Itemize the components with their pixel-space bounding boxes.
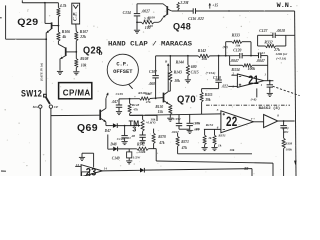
svg-text:B: B <box>164 60 168 64</box>
svg-text:.022: .022 <box>222 84 228 88</box>
svg-text:D48: D48 <box>109 142 116 146</box>
svg-text:88: 88 <box>244 166 248 171</box>
wire bus to C120 <box>210 55 240 57</box>
wire Q69 collector arrow to B <box>105 98 107 108</box>
svg-text:MA: MA <box>32 105 39 109</box>
op-amp U23 <box>81 153 83 157</box>
svg-text:1/2W: 1/2W <box>133 156 141 160</box>
resistor R334 100k feedback <box>229 56 231 66</box>
capacitor C134 .0027 <box>136 4 138 13</box>
resistor 2.2k <box>137 21 141 23</box>
wire bus corner down <box>272 163 274 176</box>
svg-text:10k: 10k <box>235 43 240 47</box>
svg-text:1k: 1k <box>218 144 222 148</box>
node trigger junction <box>44 2 46 4</box>
capacitor C153 .018 <box>189 114 191 123</box>
capacitor output to ground <box>269 81 271 85</box>
svg-text:4.7k: 4.7k <box>59 4 67 8</box>
wire Q70 emitter to R150 <box>168 103 170 106</box>
svg-text:CP: CP <box>54 105 59 109</box>
svg-text:Q29: Q29 <box>17 17 38 28</box>
wire left-bottom tick <box>1 170 6 172</box>
svg-text:C149: C149 <box>112 156 120 160</box>
node R143 tap <box>169 55 171 57</box>
resistor R338 100k <box>282 138 285 148</box>
diode D49 output <box>140 168 144 173</box>
svg-text:BA662 (8): BA662 (8) <box>259 106 281 111</box>
svg-text:R347: R347 <box>145 91 152 95</box>
wire callout leader <box>129 84 133 88</box>
wire D48 branch riser <box>107 135 109 150</box>
wire U23 output <box>102 169 140 172</box>
wire corner down to bus <box>155 149 157 161</box>
wire trigger vertical to Q29 collector <box>44 3 46 24</box>
ground C149 <box>126 160 132 162</box>
svg-text:.001: .001 <box>283 130 289 134</box>
svg-text:.068: .068 <box>149 82 155 86</box>
svg-text:5: 5 <box>217 108 219 112</box>
svg-text:10k: 10k <box>195 121 200 125</box>
wire U22 top input <box>130 114 166 117</box>
wire top-left horizontal rail <box>22 2 58 4</box>
svg-text:7: 7 <box>251 117 253 121</box>
transistor Q29 <box>51 22 53 29</box>
resistor R142 10k <box>198 54 209 57</box>
resistor R143 10k <box>169 56 171 71</box>
svg-text:47k: 47k <box>181 146 188 150</box>
svg-text:39k: 39k <box>204 98 211 102</box>
svg-text:680: 680 <box>191 65 197 69</box>
resistor R335 39k <box>200 92 203 102</box>
resistor R106 4k <box>57 32 60 41</box>
resistor R371 47k <box>177 133 179 137</box>
svg-text:R371: R371 <box>181 140 189 144</box>
svg-text:R144: R144 <box>176 61 184 65</box>
svg-text:R351: R351 <box>218 133 226 137</box>
svg-text:4k: 4k <box>61 35 66 39</box>
svg-text:R109: R109 <box>148 16 156 20</box>
svg-text:.0047: .0047 <box>256 59 266 63</box>
svg-text:(-15): (-15) <box>282 126 288 130</box>
capacitor C116 .022 <box>192 8 194 13</box>
capacitor C149 trimmer box <box>128 149 130 152</box>
wire Q29 emitter down to SW12 <box>45 33 47 95</box>
ground R351 <box>211 147 217 149</box>
wire to Q28 collector <box>57 41 59 44</box>
ground TM3 <box>140 140 146 142</box>
diode D47 <box>113 123 117 128</box>
wire Q48 collector to C116 <box>172 10 193 12</box>
svg-text:.0018: .0018 <box>276 29 285 33</box>
wire rail right edge down <box>295 11 296 176</box>
svg-text:C127: C127 <box>259 29 268 33</box>
svg-text:Q48: Q48 <box>173 22 191 33</box>
circle C.P. OFFSET callout <box>107 54 138 85</box>
node Q28 base junction <box>75 51 77 53</box>
ground R150 <box>167 117 173 119</box>
ground C134 <box>134 29 140 31</box>
svg-text:1: 1 <box>261 83 263 87</box>
wire U21 output <box>264 80 274 82</box>
wire bus to C121 <box>242 55 258 57</box>
svg-text:R143: R143 <box>174 70 182 74</box>
svg-text:C152: C152 <box>173 117 181 121</box>
node C140 tap <box>124 125 126 127</box>
wire white-noise rail <box>196 10 295 12</box>
svg-text:R338: R338 <box>285 142 292 146</box>
svg-text:47k: 47k <box>145 100 151 104</box>
svg-text:100: 100 <box>148 24 153 28</box>
resistor R342 150k <box>137 147 149 150</box>
wire R108 to ground <box>75 68 77 72</box>
wire output to corner <box>144 169 252 171</box>
wire +8 stub <box>256 88 258 97</box>
capacitor C139 .047 <box>118 99 120 105</box>
node bypass junctions <box>225 55 227 57</box>
svg-text:22: 22 <box>226 114 238 129</box>
resistor R150 15k <box>169 105 172 114</box>
svg-text:10k: 10k <box>201 57 207 61</box>
svg-text:+15: +15 <box>212 4 218 8</box>
resistor R148 47k <box>129 99 131 104</box>
wire U23 feedback <box>82 152 94 154</box>
svg-text:2.2M: 2.2M <box>179 1 189 5</box>
wire buffer output <box>278 120 295 122</box>
svg-text:23: 23 <box>86 167 97 176</box>
wire U22 output <box>253 121 263 123</box>
svg-text:b: b <box>99 49 103 57</box>
svg-text:22k: 22k <box>79 35 86 39</box>
svg-text:C115: C115 <box>191 70 199 74</box>
ground Q28 emitter <box>57 70 63 72</box>
resistor 2.2M to rail <box>177 2 180 9</box>
svg-text:C120: C120 <box>233 48 241 52</box>
op-amp U22 <box>221 111 254 133</box>
svg-text:C107: C107 <box>149 70 157 74</box>
wire MA down <box>39 108 41 176</box>
svg-text:C134: C134 <box>123 11 131 15</box>
svg-text:R335: R335 <box>205 93 213 97</box>
ground C139 <box>116 111 122 113</box>
ground output cap <box>267 92 273 94</box>
wire 22k to Q28 base node <box>75 41 77 59</box>
transistor Q48 <box>166 6 168 15</box>
svg-text:C.P.: C.P. <box>73 12 79 21</box>
svg-text:150k: 150k <box>138 150 145 154</box>
wire rail segment <box>57 17 59 33</box>
svg-text:C.P.: C.P. <box>116 62 129 68</box>
wire Q70 collector <box>167 72 169 91</box>
wire Q28 emitter down <box>59 59 61 71</box>
wire bottom bus <box>156 161 273 163</box>
wire R148 to TM3 row <box>129 114 131 116</box>
resistor 4.7k top <box>57 3 59 8</box>
ground R108 <box>73 71 79 73</box>
capacitor C107 .068 <box>155 56 157 75</box>
svg-text:C139: C139 <box>116 92 124 96</box>
diode D48 <box>113 147 117 152</box>
svg-text:40k: 40k <box>194 127 200 131</box>
svg-text:OFFSET: OFFSET <box>113 69 133 75</box>
node loop junction <box>45 38 47 40</box>
box U23 lower input <box>82 172 90 176</box>
svg-text:R333: R333 <box>232 33 240 37</box>
resistor R107 22k <box>75 32 78 41</box>
svg-text:+0.6(V): +0.6(V) <box>146 120 156 124</box>
ground C152 C153 <box>187 129 193 131</box>
capacitor C138 .022 branch <box>218 55 220 57</box>
svg-text:(+15A): (+15A) <box>206 71 216 75</box>
capacitor C152 .0047 <box>178 115 180 123</box>
wire left edge tick <box>0 17 2 19</box>
wire C134 to ground <box>136 22 138 29</box>
svg-text:21: 21 <box>248 75 259 87</box>
svg-text:D47: D47 <box>104 129 111 133</box>
wire top-left supply stub <box>21 0 23 3</box>
capacitor TM3 bottom .08 <box>142 131 144 134</box>
wire clap node bus <box>119 98 140 100</box>
node R144 tap <box>187 55 189 57</box>
svg-text:(=5.1k): (=5.1k) <box>276 57 286 61</box>
wire to R342 <box>118 148 137 150</box>
svg-text:10k: 10k <box>81 64 87 68</box>
ground R152 <box>202 147 208 149</box>
svg-text:R150: R150 <box>155 105 163 109</box>
wire from C.P. box down <box>75 24 78 32</box>
wire D47 to TM3 wiper <box>117 125 137 127</box>
svg-text:Q69: Q69 <box>77 123 98 134</box>
svg-text:.0047: .0047 <box>171 130 179 134</box>
wire maracas bus <box>156 55 199 57</box>
svg-text:R342: R342 <box>137 143 145 147</box>
wire Q69 emitter <box>105 122 107 126</box>
ground R144 <box>185 79 191 81</box>
resistor R333 10k bypass <box>225 42 227 56</box>
svg-text:.08: .08 <box>131 134 135 138</box>
node Q29 base junction <box>58 25 60 27</box>
svg-text:14: 14 <box>104 167 108 171</box>
wire R342 to corner <box>148 148 156 150</box>
capacitor C127 .0018 <box>258 34 273 36</box>
node C134 junction <box>136 21 138 23</box>
supply +15 arrow <box>209 3 211 8</box>
ground U23 loop <box>79 156 85 158</box>
node rail junction <box>228 10 229 11</box>
capacitor C120 .0047 <box>239 53 241 58</box>
svg-text:100k: 100k <box>248 67 256 71</box>
resistor R351 1k <box>214 129 216 135</box>
svg-text:R142: R142 <box>198 49 206 53</box>
svg-text:R148: R148 <box>132 103 140 107</box>
svg-text:10k: 10k <box>174 79 180 83</box>
svg-text:1k: 1k <box>208 136 212 140</box>
resistor R332 27k parallel <box>257 35 259 46</box>
svg-text:R152: R152 <box>206 123 214 127</box>
wire to Q48 emitter <box>154 18 163 23</box>
wire bus end <box>261 55 268 57</box>
wire dashed inter-sheet <box>273 86 300 95</box>
svg-text:R332: R332 <box>264 41 272 45</box>
svg-text:SW12: SW12 <box>21 88 42 98</box>
capacitor .001 to -15 <box>283 121 285 125</box>
svg-text:(GATE IN 1st): (GATE IN 1st) <box>40 63 44 81</box>
arrow rail direction <box>294 161 297 165</box>
svg-text:C138: C138 <box>213 76 221 80</box>
svg-text:120k for: 120k for <box>275 52 287 56</box>
op-amp U21 <box>237 74 264 87</box>
svg-text:.047: .047 <box>112 100 118 104</box>
resistor R144 680 <box>187 56 189 65</box>
wire feedback to output <box>267 56 269 81</box>
op-amp buffer BA662 <box>264 115 278 128</box>
svg-text:R107: R107 <box>80 30 89 34</box>
resistor R348 1M <box>140 97 151 100</box>
svg-text:8: 8 <box>277 113 279 117</box>
box CP/MA <box>59 83 92 99</box>
svg-text:.0027: .0027 <box>141 9 151 13</box>
svg-text:15k: 15k <box>158 110 164 114</box>
transistor Q28 <box>65 47 67 56</box>
wire output corner down <box>251 169 253 176</box>
svg-text:C121: C121 <box>258 51 266 55</box>
transistor Q70 <box>163 93 165 103</box>
wire U21 inputs <box>231 74 237 76</box>
svg-text:Q70: Q70 <box>177 94 196 105</box>
svg-text:(+8): (+8) <box>251 97 257 101</box>
svg-text:100k: 100k <box>286 147 293 151</box>
wire U22 lower input <box>204 128 221 130</box>
resistor R152 1k <box>204 129 206 135</box>
svg-text:47k: 47k <box>158 141 165 145</box>
svg-text:R108: R108 <box>80 57 88 61</box>
wire left loop vertical <box>5 5 7 39</box>
svg-text:.0047: .0047 <box>230 59 240 63</box>
connector box C.P. trigger input <box>72 3 80 24</box>
svg-text:CP/MA: CP/MA <box>63 88 91 97</box>
svg-text:10k: 10k <box>229 148 234 152</box>
svg-text:3: 3 <box>132 127 136 134</box>
transistor Q69 <box>99 110 101 120</box>
capacitor C140 .01 <box>124 126 126 136</box>
wire left loop bottom <box>6 38 47 40</box>
wire lower bus <box>178 153 252 155</box>
resistor R370 47k <box>153 129 155 134</box>
wire CP branch to Q69 base <box>51 114 100 116</box>
svg-text:W.N.: W.N. <box>277 2 293 10</box>
wire U23 input stub <box>75 165 81 167</box>
svg-text:1: 1 <box>264 72 266 76</box>
node R148 tap <box>129 98 131 100</box>
wire to Q70 base <box>150 97 154 99</box>
wire stub <box>156 115 158 121</box>
annotation B supply Q70 <box>167 64 169 73</box>
wire D48 row <box>108 148 113 150</box>
svg-text:C116 .022: C116 .022 <box>188 17 204 21</box>
resistor R108 10k <box>75 59 78 68</box>
wire CP down <box>50 108 52 176</box>
capacitor C121 .0047 <box>258 53 260 58</box>
line BA662 dash-dot <box>206 104 290 106</box>
svg-text:HAND CLAP / MARACAS: HAND CLAP / MARACAS <box>108 40 192 47</box>
svg-text:C140: C140 <box>117 137 125 141</box>
ground C140 <box>122 141 128 143</box>
svg-text:R370: R370 <box>158 135 166 139</box>
